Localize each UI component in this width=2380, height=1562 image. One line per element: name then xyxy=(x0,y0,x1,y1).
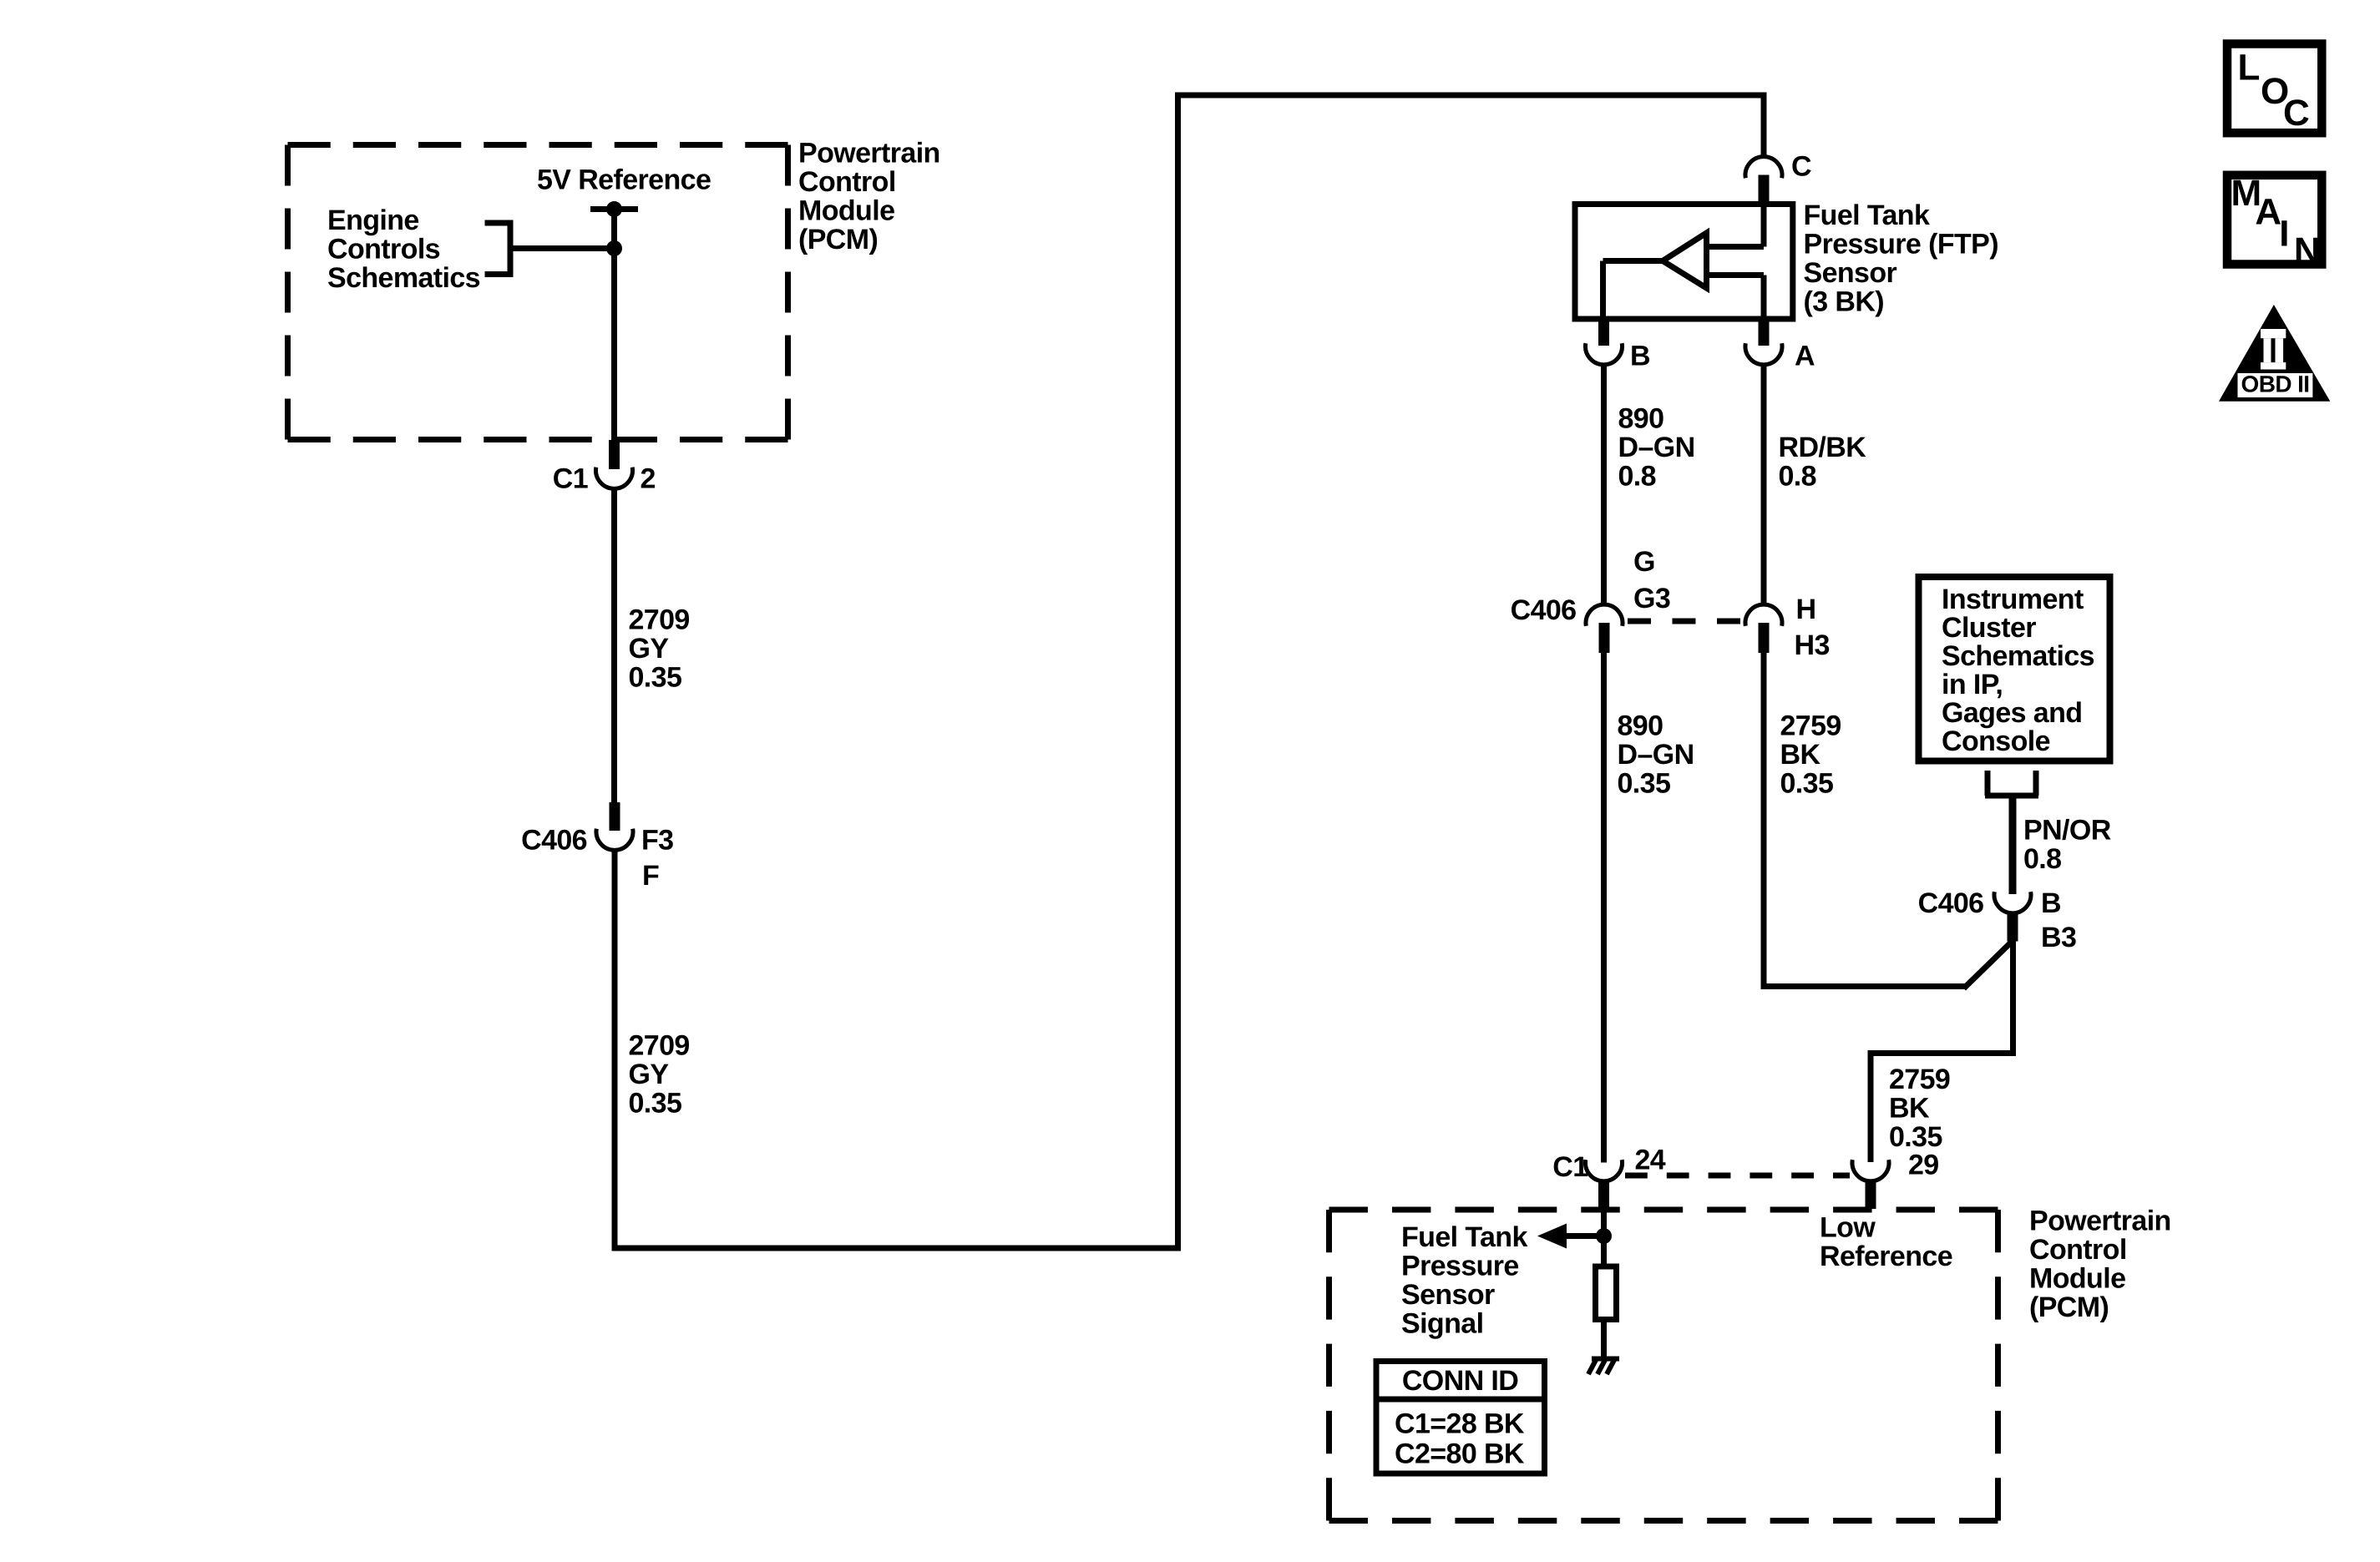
svg-text:Fuel Tank: Fuel Tank xyxy=(1804,200,1930,231)
svg-text:Controls: Controls xyxy=(327,233,440,265)
label C1 xyxy=(553,463,588,494)
PCM box (top left, dashed) xyxy=(288,145,788,440)
svg-text:Control: Control xyxy=(798,166,896,198)
label: Powertrain Control Module (PCM) bottom xyxy=(2029,1205,2171,1323)
svg-text:2759: 2759 xyxy=(1889,1064,1950,1095)
label: 2709 GY 0.35 (lower) xyxy=(629,1029,690,1119)
svg-text:F: F xyxy=(642,860,659,892)
pin label G xyxy=(1633,546,1655,578)
svg-text:890: 890 xyxy=(1618,710,1663,741)
wire: circuit 2709 GY lower segment xyxy=(612,850,618,1248)
svg-text:C406: C406 xyxy=(1511,594,1577,626)
svg-text:OBD II: OBD II xyxy=(2241,371,2310,397)
svg-text:0.8: 0.8 xyxy=(1779,460,1816,492)
svg-text:in IP,: in IP, xyxy=(1942,669,2003,700)
junction dot at signal branch xyxy=(1596,1228,1612,1244)
label C406 (right) xyxy=(1918,887,1984,919)
svg-text:B: B xyxy=(2041,887,2061,919)
wire: B3 down to PCM pin 29 (2759 BK) xyxy=(1871,939,2016,1162)
dashed connector line C406 G3-H3 xyxy=(1628,619,1742,624)
svg-text:5V Reference: 5V Reference xyxy=(537,164,711,195)
label: C2=80 BK xyxy=(1395,1438,1525,1469)
svg-text:Pressure: Pressure xyxy=(1401,1250,1519,1281)
wire: top horizontal run to FTP sensor pin C xyxy=(1175,93,1764,99)
connector C1 pin 29 xyxy=(1852,1160,1889,1209)
label: Powertrain Control Module (PCM) top-left xyxy=(798,137,940,255)
label: Low Reference xyxy=(1820,1211,1952,1272)
svg-text:(3 BK): (3 BK) xyxy=(1804,286,1885,317)
wire: circuit 2709 GY upper segment xyxy=(611,488,617,802)
arrow: Fuel Tank Pressure Sensor Signal xyxy=(1537,1224,1567,1249)
svg-text:G3: G3 xyxy=(1633,583,1670,614)
connector C1 pin 24 xyxy=(1586,1160,1623,1209)
ground symbol xyxy=(1588,1359,1619,1375)
pin label 29 xyxy=(1908,1149,1939,1180)
svg-text:Control: Control xyxy=(2029,1234,2127,1266)
connector C406 pin G/G3 xyxy=(1586,604,1623,653)
svg-text:Powertrain: Powertrain xyxy=(2029,1205,2171,1236)
pin label B xyxy=(2041,887,2061,919)
connector bracket below instrument cluster box xyxy=(1985,771,2038,796)
label: Engine Controls Schematics xyxy=(327,205,480,294)
wire: pin 24 into PCM xyxy=(1601,1209,1607,1264)
svg-text:Signal: Signal xyxy=(1401,1307,1483,1339)
wire: amp output to pin B xyxy=(1603,261,1664,318)
svg-text:Schematics: Schematics xyxy=(1942,640,2094,672)
svg-text:Reference: Reference xyxy=(1820,1241,1952,1272)
svg-text:GY: GY xyxy=(629,1059,670,1090)
op-amp (sensor amplifier triangle) xyxy=(1663,233,1707,288)
connector C406 pin B/B3 xyxy=(1994,892,2031,941)
wire: vertical riser of 5V reference circuit xyxy=(1175,93,1181,1251)
svg-text:RD/BK: RD/BK xyxy=(1779,432,1867,463)
svg-text:0.35: 0.35 xyxy=(629,1087,682,1119)
svg-text:C406: C406 xyxy=(1918,887,1984,919)
wire: drop to FTP sensor pin C xyxy=(1761,93,1767,159)
label: RD/BK 0.8 xyxy=(1779,432,1867,493)
svg-text:BK: BK xyxy=(1889,1092,1930,1124)
svg-text:GY: GY xyxy=(629,633,670,665)
PCM box (bottom, dashed) xyxy=(1329,1210,1998,1521)
pin label F3 xyxy=(641,824,673,856)
svg-text:0.35: 0.35 xyxy=(629,661,682,693)
svg-text:C: C xyxy=(1791,150,1811,182)
dashed connector line C1 24-29 xyxy=(1625,1173,1850,1179)
Fuel Tank Pressure (FTP) Sensor box xyxy=(1575,205,1793,320)
svg-text:PN/OR: PN/OR xyxy=(2023,814,2111,846)
pin label G3 xyxy=(1633,583,1670,614)
svg-text:Module: Module xyxy=(798,195,894,226)
junction dot on 5V line xyxy=(606,240,622,256)
resistor (PCM internal pull-up) xyxy=(1596,1266,1617,1320)
svg-text:D–GN: D–GN xyxy=(1618,432,1695,463)
svg-text:(PCM): (PCM) xyxy=(2029,1292,2109,1323)
svg-text:L: L xyxy=(2238,47,2260,88)
svg-text:C1=28 BK: C1=28 BK xyxy=(1395,1408,1525,1439)
wire: circuit 2759 BK 0.35 (upper) xyxy=(1761,653,1767,989)
label: 5V Reference xyxy=(537,164,711,195)
svg-text:G: G xyxy=(1633,546,1655,578)
wire: branch to signal arrow xyxy=(1566,1233,1604,1239)
svg-text:2709: 2709 xyxy=(629,604,690,635)
connector C1 pin 2 (PCM) xyxy=(596,440,633,488)
OBD II symbol (triangle) xyxy=(2219,305,2330,402)
svg-text:0.35: 0.35 xyxy=(1889,1121,1942,1153)
svg-text:N: N xyxy=(2294,230,2320,271)
svg-text:D–GN: D–GN xyxy=(1618,739,1694,771)
wire: bracket to 5V reference line xyxy=(510,245,615,251)
svg-text:F3: F3 xyxy=(641,824,673,856)
Instrument Cluster Schematics box xyxy=(1919,577,2110,761)
svg-text:Schematics: Schematics xyxy=(327,262,480,294)
svg-text:I: I xyxy=(2279,213,2289,254)
svg-text:C406: C406 xyxy=(521,824,587,856)
wire: resistor to ground xyxy=(1601,1322,1607,1358)
label: Fuel Tank Pressure Sensor Signal xyxy=(1401,1221,1527,1340)
pin label 2 xyxy=(641,463,656,494)
label C406 (middle) xyxy=(1511,594,1577,626)
label: 2759 BK 0.35 (lower) xyxy=(1889,1064,1950,1153)
connector C406 pin F3/F xyxy=(596,802,633,850)
pin label F xyxy=(642,860,659,892)
svg-text:A: A xyxy=(2255,192,2281,233)
CONN ID table xyxy=(1376,1362,1545,1474)
label: Fuel Tank Pressure (FTP) Sensor (3 BK) xyxy=(1804,200,1998,318)
pin label H xyxy=(1796,594,1816,625)
svg-text:0.35: 0.35 xyxy=(1618,767,1671,799)
svg-text:H: H xyxy=(1796,594,1816,625)
svg-text:Powertrain: Powertrain xyxy=(798,137,940,169)
svg-text:Gages and: Gages and xyxy=(1942,697,2082,729)
wire: jog from RD/BK branch to B3 xyxy=(1761,939,2015,988)
label C406 (left) xyxy=(521,824,587,856)
svg-text:Instrument: Instrument xyxy=(1942,584,2084,615)
node: 5V Reference terminal tick xyxy=(590,206,638,212)
wire: amp upper input to pin C xyxy=(1704,207,1764,247)
pin label H3 xyxy=(1795,629,1830,661)
svg-text:Console: Console xyxy=(1942,725,2050,757)
label: CONN ID xyxy=(1402,1365,1518,1397)
LOC reference box xyxy=(2227,44,2322,134)
svg-text:C2=80 BK: C2=80 BK xyxy=(1395,1438,1525,1469)
label: 2759 BK 0.35 (upper) xyxy=(1780,710,1841,799)
svg-text:Sensor: Sensor xyxy=(1401,1279,1495,1311)
svg-text:0.8: 0.8 xyxy=(1618,460,1656,492)
svg-text:C1: C1 xyxy=(553,463,588,494)
svg-text:Module: Module xyxy=(2029,1262,2125,1294)
label: 890 D-GN 0.8 xyxy=(1618,402,1695,492)
wire: circuit PN/OR 0.8 xyxy=(2009,796,2017,894)
svg-text:0.35: 0.35 xyxy=(1780,767,1834,799)
svg-text:890: 890 xyxy=(1618,402,1664,434)
connector C406 pin H/H3 xyxy=(1745,604,1782,653)
svg-text:BK: BK xyxy=(1780,739,1821,771)
svg-text:A: A xyxy=(1795,340,1815,372)
bracket: Engine Controls Schematics reference xyxy=(485,220,514,278)
wire: bottom horizontal run of 5V reference circuit xyxy=(612,1246,1178,1251)
label: PN/OR 0.8 xyxy=(2023,814,2111,875)
svg-text:Low: Low xyxy=(1820,1211,1876,1243)
pin label A xyxy=(1795,340,1815,372)
pin label 24 xyxy=(1635,1144,1666,1175)
wire: circuit 890 D-GN 0.8 xyxy=(1601,365,1607,605)
wire: circuit RD/BK 0.8 xyxy=(1761,365,1767,605)
svg-text:B: B xyxy=(1630,340,1650,372)
label: 890 D-GN 0.35 xyxy=(1618,710,1694,799)
label C1 (bottom) xyxy=(1552,1151,1588,1183)
label: 2709 GY 0.35 (upper) xyxy=(629,604,690,693)
pin label B xyxy=(1630,340,1650,372)
svg-text:Sensor: Sensor xyxy=(1804,257,1897,289)
junction dot at 5V Reference xyxy=(606,201,622,217)
svg-text:24: 24 xyxy=(1635,1144,1666,1175)
MAIN reference box xyxy=(2227,173,2322,271)
pin label B3 xyxy=(2041,922,2076,953)
svg-text:0.8: 0.8 xyxy=(2023,843,2061,875)
svg-text:Cluster: Cluster xyxy=(1942,612,2036,644)
svg-text:29: 29 xyxy=(1908,1149,1939,1180)
svg-text:2759: 2759 xyxy=(1780,710,1841,741)
wire: circuit 890 D-GN 0.35 xyxy=(1601,653,1607,1163)
svg-text:B3: B3 xyxy=(2041,922,2076,953)
svg-text:2: 2 xyxy=(641,463,656,494)
svg-text:H3: H3 xyxy=(1795,629,1830,661)
svg-text:CONN ID: CONN ID xyxy=(1402,1365,1518,1397)
svg-text:2709: 2709 xyxy=(629,1029,690,1061)
connector: FTP sensor pin B xyxy=(1586,319,1623,365)
label: C1=28 BK xyxy=(1395,1408,1525,1439)
pin label C xyxy=(1791,150,1811,182)
svg-text:Pressure (FTP): Pressure (FTP) xyxy=(1804,228,1998,260)
svg-text:C: C xyxy=(2283,93,2309,134)
connector: FTP sensor pin A xyxy=(1745,319,1782,365)
wire: 5V reference vertical inside PCM xyxy=(611,210,617,441)
label: Instrument Cluster Schematics in IP, Gages and Console xyxy=(1942,584,2094,757)
connector: FTP sensor pin C xyxy=(1745,157,1782,205)
svg-text:C1: C1 xyxy=(1552,1151,1588,1183)
svg-text:(PCM): (PCM) xyxy=(798,224,878,255)
wire: amp lower input to pin A xyxy=(1704,275,1764,318)
svg-text:Engine: Engine xyxy=(327,205,419,236)
svg-text:Fuel Tank: Fuel Tank xyxy=(1401,1221,1527,1253)
